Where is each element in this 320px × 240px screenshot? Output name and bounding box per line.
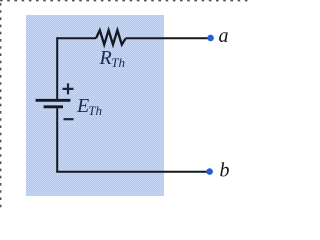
resistor R1 zigzag xyxy=(96,30,126,44)
selection dashed border left xyxy=(0,3,2,208)
wire left vertical xyxy=(56,37,58,99)
terminal a node dot xyxy=(207,35,214,42)
battery E1 long plate xyxy=(36,99,71,102)
wire resistor to terminal a xyxy=(126,37,208,39)
svg-text:a: a xyxy=(219,25,229,47)
shaded circuit region xyxy=(26,15,164,196)
plus sign xyxy=(63,83,74,94)
wire top from corner to resistor xyxy=(57,37,96,39)
wire bottom vertical xyxy=(56,108,58,172)
selection dashed border top xyxy=(0,0,248,2)
minus sign xyxy=(64,118,74,120)
svg-text:b: b xyxy=(220,160,230,182)
wire bottom horizontal to terminal b xyxy=(56,171,207,173)
battery E1 short plate xyxy=(44,105,63,108)
terminal b node dot xyxy=(206,168,213,175)
